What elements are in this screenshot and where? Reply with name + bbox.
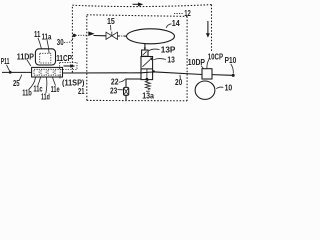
wire below check valve 23 xyxy=(125,95,127,100)
pipe left segment P11 xyxy=(2,71,32,73)
pump inlet box 10 xyxy=(202,69,212,79)
valve 13 divider xyxy=(141,68,153,70)
pipe from valve 13 to pump box xyxy=(153,72,202,75)
leader for 11e xyxy=(53,77,56,85)
leader for 11d xyxy=(46,77,47,93)
svg-text:11d: 11d xyxy=(41,93,50,102)
leader for 10CP xyxy=(207,60,209,68)
dashed cell 11c xyxy=(41,69,46,75)
pilot arrow inside 13P xyxy=(143,51,147,55)
svg-text:10DP: 10DP xyxy=(188,58,206,67)
stem from canister to pilot 13P xyxy=(144,44,146,50)
tank unit 11 rounded box xyxy=(35,49,55,65)
dashed cell 11e xyxy=(55,69,60,75)
leader for P10 xyxy=(231,64,234,74)
valve 15 stem xyxy=(111,32,113,36)
arrowhead on pilot line xyxy=(88,31,94,36)
svg-text:13P: 13P xyxy=(161,46,176,55)
svg-text:22: 22 xyxy=(111,78,119,87)
leader for 20 xyxy=(179,75,181,79)
node dot right of valve 13 xyxy=(153,70,155,72)
dash-dot line to canister 14 xyxy=(118,35,127,37)
svg-text:11DP: 11DP xyxy=(17,52,35,61)
svg-text:13a: 13a xyxy=(142,92,154,101)
pump dashed box 11SP xyxy=(60,62,77,69)
leader for 30 (dashed) xyxy=(64,37,74,43)
spring 13a xyxy=(145,80,150,90)
svg-text:11e: 11e xyxy=(51,85,60,94)
leader for 15 xyxy=(110,25,112,30)
svg-text:11a: 11a xyxy=(42,32,52,41)
inner dashed box 20 xyxy=(86,15,88,101)
leader for 10DP xyxy=(201,66,203,69)
canister ellipse 14 xyxy=(127,29,175,44)
leader for 23 xyxy=(118,89,123,91)
svg-text:14: 14 xyxy=(172,19,180,28)
dashed cell 11d xyxy=(48,69,53,75)
svg-text:11CP: 11CP xyxy=(56,54,72,63)
leader for 13 xyxy=(154,59,166,60)
leader for 10 xyxy=(216,87,223,89)
branch line 22 xyxy=(125,78,141,80)
svg-text:20: 20 xyxy=(175,78,183,87)
pipe right of pump box xyxy=(212,74,232,77)
leader for 22 xyxy=(119,79,125,82)
svg-text:10: 10 xyxy=(225,84,233,93)
flow arrow on top edge xyxy=(133,3,139,5)
pipe middle segment xyxy=(63,72,142,74)
dashed cell 11b xyxy=(34,69,39,75)
svg-text:23: 23 xyxy=(110,86,118,95)
leader for 11c xyxy=(38,77,41,85)
leader for 12 (dashed) xyxy=(174,12,183,14)
leader for 25 xyxy=(19,75,22,81)
straight path in bottom cell xyxy=(146,70,148,79)
svg-text:15: 15 xyxy=(107,17,115,26)
leader for 14 xyxy=(166,24,171,28)
svg-text:21: 21 xyxy=(78,87,85,96)
leader for 11b xyxy=(29,77,36,89)
svg-text:12: 12 xyxy=(184,9,191,18)
pipe through valve 13 xyxy=(141,71,153,74)
pilot dashed line from node 30 xyxy=(76,34,89,36)
svg-text:11: 11 xyxy=(34,30,41,39)
svg-text:P11: P11 xyxy=(1,57,10,66)
node P10 end dot xyxy=(232,74,235,77)
valve body 13 xyxy=(141,57,153,80)
leader for 13P xyxy=(149,49,160,51)
stem arrowhead xyxy=(144,48,146,51)
arrow inside 11SP xyxy=(64,65,72,67)
sensor rect 11S xyxy=(32,67,63,77)
svg-text:P10: P10 xyxy=(225,56,237,65)
pump circle 10 xyxy=(195,81,215,99)
spring base bar xyxy=(146,90,150,92)
down arrow inside box 12 xyxy=(207,21,209,34)
leader for 11DP xyxy=(27,60,31,66)
svg-text:10CP: 10CP xyxy=(208,52,224,61)
svg-text:30: 30 xyxy=(57,38,64,47)
svg-text:11b: 11b xyxy=(22,89,32,98)
svg-text:13: 13 xyxy=(167,55,175,64)
wire to valve 15 xyxy=(94,35,107,37)
node P11 junction dot xyxy=(9,71,12,74)
inner dashed rect 11a xyxy=(40,53,51,63)
variable orifice arrow in top cell xyxy=(142,58,151,66)
node 30 junction dot xyxy=(73,34,76,37)
leader for 11 xyxy=(38,38,41,49)
leader for P11 xyxy=(7,65,10,71)
check valve 23 xyxy=(124,87,129,95)
valve 15 bowtie xyxy=(106,32,118,39)
pilot box 13P xyxy=(142,50,148,56)
wire down to check valve 23 xyxy=(125,79,127,87)
leader for 11a xyxy=(47,40,49,53)
leader for (11SP) xyxy=(59,75,61,79)
outer dashed box 12 xyxy=(71,5,73,72)
